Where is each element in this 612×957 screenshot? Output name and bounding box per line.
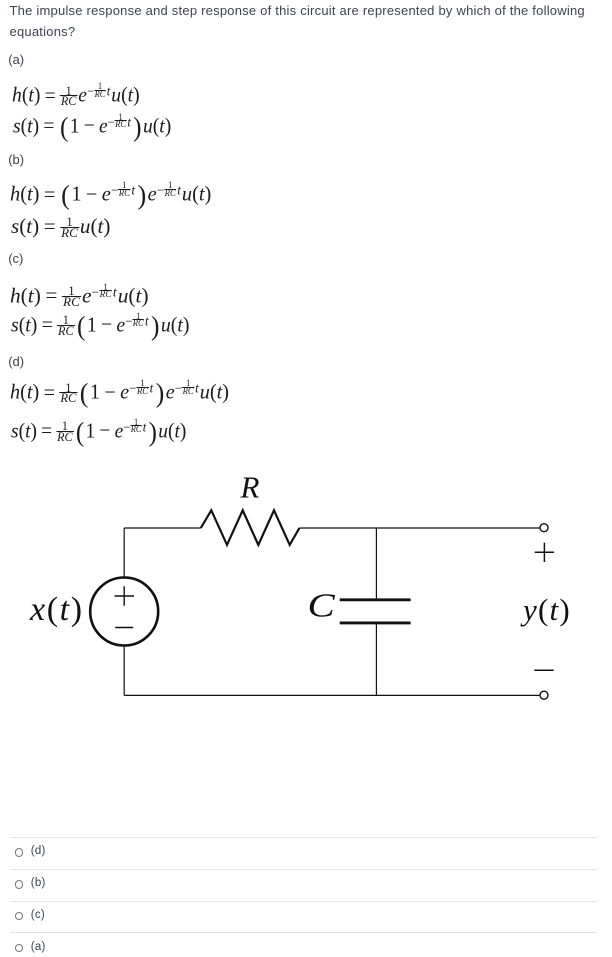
wire top-left horizontal segment — [124, 527, 201, 529]
resistor R zigzag — [201, 510, 300, 545]
wire left vertical bottom — [123, 645, 125, 695]
wire left vertical top — [123, 528, 125, 578]
wire bottom horizontal — [124, 694, 539, 696]
svg-text:y(t): y(t) — [520, 592, 571, 627]
circuit schematic — [0, 460, 612, 720]
wire top-right horizontal segment — [299, 527, 539, 529]
capacitor C bottom plate — [340, 621, 411, 624]
source minus sign — [115, 627, 133, 629]
capacitor C top plate — [340, 598, 411, 601]
voltage source x(t) circle — [90, 578, 158, 646]
wire capacitor branch bottom — [375, 624, 377, 695]
svg-text:C: C — [308, 587, 336, 624]
output terminal top — [540, 524, 548, 532]
output terminal bottom — [540, 691, 548, 699]
svg-text:R: R — [240, 470, 260, 505]
output plus sign — [535, 543, 554, 562]
source plus sign — [115, 586, 135, 606]
output minus sign — [534, 669, 553, 671]
wire capacitor branch top — [375, 528, 377, 598]
svg-text:x(t): x(t) — [29, 591, 84, 628]
